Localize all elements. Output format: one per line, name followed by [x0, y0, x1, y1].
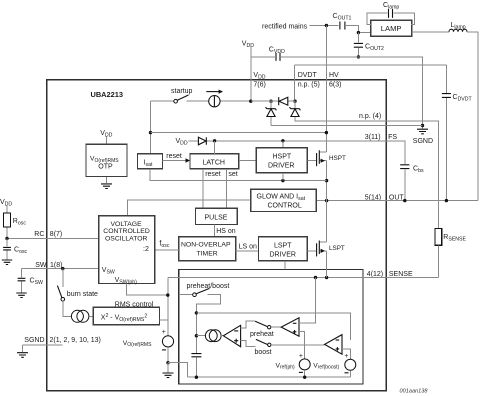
node FS-hsptdriver dot	[281, 139, 284, 142]
svg-text:TIMER: TIMER	[197, 251, 218, 258]
wire VDD lead into IC pin 7(6)	[250, 47, 252, 101]
wire COUT1 to lamp node	[346, 26, 371, 33]
wire FS node down to HSPT DRIVER top	[282, 141, 284, 148]
LAMP box	[371, 20, 412, 36]
op-amp A1 (buffer, points left)	[223, 325, 240, 346]
svg-text:preheat/boost: preheat/boost	[187, 283, 230, 290]
pin DVDT n.p.(5) stub	[294, 65, 296, 101]
svg-text:2(1, 2, 9, 10, 13): 2(1, 2, 9, 10, 13)	[50, 337, 101, 344]
wire SGND stub	[23, 344, 63, 346]
block NON-OVERLAP TIMER	[179, 237, 236, 261]
wire VDD clamp row	[251, 100, 295, 102]
wire bootstrap/FS from diode to Cbs	[188, 141, 404, 164]
block PULSE	[196, 208, 238, 224]
block LSPT DRIVER	[259, 237, 308, 261]
wire LAMP right to Llamp	[412, 31, 449, 33]
svg-text:DRIVER: DRIVER	[270, 252, 296, 259]
source VO(ref)RMS	[162, 336, 173, 347]
capacitor CSW	[21, 269, 23, 293]
svg-text:startup: startup	[171, 88, 193, 95]
block HSPT DRIVER	[256, 148, 307, 173]
svg-text:SENSE: SENSE	[389, 271, 413, 278]
wire startup source to HV line	[151, 132, 327, 134]
svg-text:OTP: OTP	[98, 163, 113, 170]
switch preheat	[241, 321, 255, 328]
capacitor CDVDT	[445, 65, 447, 201]
wire rectified mains to COUT1	[310, 25, 339, 27]
svg-text:DVDT: DVDT	[298, 72, 318, 79]
inner ground rail	[187, 376, 350, 378]
current source startup	[187, 100, 251, 102]
wire Llamp down right side to OUT net	[467, 32, 478, 201]
svg-text:rectified mains: rectified mains	[262, 23, 308, 30]
svg-text:CONTROL: CONTROL	[268, 203, 302, 210]
node zener-gnd junction dot	[421, 124, 424, 127]
transistor LSPT	[307, 250, 316, 252]
svg-text:SGND: SGND	[413, 138, 433, 145]
svg-text:001aan138: 001aan138	[400, 388, 429, 394]
svg-text:NON-OVERLAP: NON-OVERLAP	[181, 241, 231, 248]
node Ct bottom dot	[195, 376, 198, 379]
svg-text:6(3): 6(3)	[329, 82, 341, 89]
wire X2 output to source	[160, 319, 168, 321]
svg-text:reset: reset	[166, 153, 182, 160]
source Vref(ph)	[299, 359, 310, 370]
capacitor Cosc	[6, 239, 8, 260]
comparator U2 (preheat, points left)	[281, 318, 299, 336]
node VDD row dots	[249, 100, 252, 103]
multiplier (interlocking circles)	[71, 310, 83, 322]
wire VCO top to GLOW left	[127, 200, 250, 216]
node diode-latch dot	[213, 139, 216, 142]
svg-text:preheat: preheat	[250, 331, 274, 338]
wire HV line from lamp node into IC to HSPT drain	[325, 26, 327, 152]
wire VSW(ph) output	[127, 284, 168, 296]
svg-text:+: +	[162, 329, 166, 336]
node lamp/COUT2 dot	[357, 31, 360, 34]
svg-text:n.p. (4): n.p. (4)	[359, 113, 381, 120]
capacitor COUT2	[357, 33, 359, 57]
svg-text:7(6): 7(6)	[253, 82, 265, 89]
switch burn state	[62, 269, 64, 288]
svg-text:SGND: SGND	[24, 337, 44, 344]
capacitor Cbs	[400, 165, 409, 169]
node SENSE dots	[314, 276, 317, 279]
wire SGND rail from CVDD to right	[281, 57, 423, 129]
inner control sub-block box	[179, 270, 363, 385]
node VO(ref)RMS gnd dot	[166, 361, 169, 364]
wire LS on	[236, 250, 259, 252]
svg-text:+: +	[299, 353, 303, 360]
svg-text:burn state: burn state	[67, 291, 98, 298]
node RC dot	[5, 237, 8, 240]
svg-text:DRIVER: DRIVER	[268, 163, 294, 170]
wire VO(ref)RMS to inner gnd rail	[168, 363, 187, 378]
wire LATCH set down to PULSE	[226, 169, 228, 209]
switch boost	[241, 341, 256, 347]
wire DVDT node to CDVDT	[295, 64, 447, 66]
wire SENSE net	[168, 277, 439, 279]
svg-text:HV: HV	[329, 72, 339, 79]
svg-text:LSPT: LSPT	[329, 245, 345, 252]
wire HSPT DRIVER bottom	[282, 173, 284, 181]
wire U2 plus input to Vref(ph)	[299, 332, 305, 359]
ground below Cosc	[2, 260, 12, 265]
wire U2 minus input to SENSE	[299, 278, 316, 324]
block VCO	[99, 216, 155, 284]
svg-text:LSPT: LSPT	[274, 243, 292, 250]
wire node T to mirror	[196, 335, 205, 337]
wire SENSE/X2 vertical	[167, 278, 169, 336]
wire HSPT source down through OUT to LSPT drain	[326, 161, 328, 278]
switch startup	[151, 100, 174, 102]
wire diode node down to LATCH top	[214, 141, 216, 154]
capacitor Clamp with parallel loop	[367, 13, 414, 24]
wire SW	[22, 268, 99, 270]
wire OUT net	[316, 200, 478, 202]
source Vref(boost)	[345, 359, 356, 370]
block GLOW AND Isat CONTROL	[251, 189, 317, 211]
svg-text:+: +	[344, 353, 348, 360]
svg-text:HSPT: HSPT	[329, 155, 346, 162]
svg-text:VOLTAGE: VOLTAGE	[111, 221, 143, 228]
svg-text:HS on: HS on	[216, 228, 236, 235]
wire startup to Isat	[150, 101, 152, 154]
node OUT dots	[325, 199, 328, 202]
node mirror tap dot	[195, 334, 198, 337]
node timing node T dot	[195, 311, 198, 314]
svg-text:3(11): 3(11)	[365, 134, 381, 141]
node COUT2-SGND dot	[357, 55, 360, 58]
svg-text:LAMP: LAMP	[381, 24, 402, 33]
inductor Llamp	[449, 29, 467, 32]
ground below VO(ref)RMS	[167, 363, 169, 373]
svg-text:OSCILLATOR: OSCILLATOR	[105, 235, 148, 242]
svg-text:reset: reset	[205, 171, 221, 178]
node HSPT source dots	[325, 179, 328, 182]
svg-text:8(7): 8(7)	[50, 231, 62, 238]
svg-text:HSPT: HSPT	[273, 154, 292, 161]
current mirror circles	[205, 330, 217, 342]
zener Z2	[294, 101, 296, 108]
capacitor CVDD	[251, 56, 275, 58]
wire Isat bottom rail	[150, 169, 327, 181]
wire RSENSE to SENSE net	[437, 245, 439, 277]
wire LATCH reset down to PULSE	[202, 169, 204, 209]
block X2 - VO(ref)RMS2	[93, 307, 159, 325]
node HV tap dot	[325, 24, 328, 27]
ground below OTP	[101, 184, 112, 189]
resistor Rosc	[6, 206, 8, 239]
wire Isat reset arrow to LATCH	[163, 160, 187, 162]
svg-text:PULSE: PULSE	[205, 215, 228, 222]
wire fosc VCO to timer	[155, 249, 179, 251]
block Isat	[138, 154, 163, 169]
block LATCH	[190, 154, 239, 169]
resistor RSENSE	[435, 228, 442, 245]
svg-text:FS: FS	[388, 134, 397, 141]
wire LATCH to HSPT DRIVER	[239, 160, 256, 162]
wire zener1 to SGND	[271, 125, 423, 127]
wire mirror to amp A1	[221, 335, 223, 337]
svg-text:CONTROLLED: CONTROLLED	[103, 228, 150, 235]
capacitor COUT1	[340, 22, 345, 30]
wire LSPT DRIVER bottom to inner box	[284, 261, 286, 270]
switch preheat/boost	[179, 294, 193, 296]
svg-text:LS on: LS on	[239, 243, 257, 250]
svg-text::2: :2	[143, 246, 149, 253]
wire HS on	[214, 225, 216, 237]
svg-text:RC: RC	[34, 231, 44, 238]
zener Z1	[270, 101, 272, 125]
svg-text:boost: boost	[255, 349, 272, 356]
wire node T to comparator U3 minus	[196, 313, 350, 340]
node startup-HV wire dot	[149, 131, 152, 134]
svg-text:LATCH: LATCH	[203, 159, 225, 166]
wire preheat switch to comparator U2 output	[271, 326, 281, 328]
svg-text:UBA2213: UBA2213	[91, 90, 123, 99]
svg-text:set: set	[228, 171, 237, 178]
ground below CSW	[16, 293, 26, 298]
wire boost switch to comparator U3 output	[271, 344, 325, 346]
wire zener2/np4 to RSENSE	[295, 116, 438, 228]
svg-text:n.p. (5): n.p. (5)	[298, 82, 320, 89]
wire U3 plus input to Vref(boost)	[342, 349, 350, 360]
node SW-burn dot	[61, 267, 64, 270]
transistor HSPT	[307, 160, 316, 162]
svg-text:4(12): 4(12)	[367, 271, 383, 278]
ground SGND left	[22, 345, 24, 352]
capacitor Ct (timing)	[191, 354, 201, 357]
ground SGND (top right)	[417, 129, 428, 134]
wire multiplier to X2 block	[89, 315, 94, 317]
IC boundary box UBA2213	[47, 80, 387, 391]
wire RC	[7, 238, 99, 240]
diode D1 (VDD to DVDT node, pointing left)	[279, 97, 288, 105]
comparator U3 (boost, points left)	[325, 335, 342, 355]
